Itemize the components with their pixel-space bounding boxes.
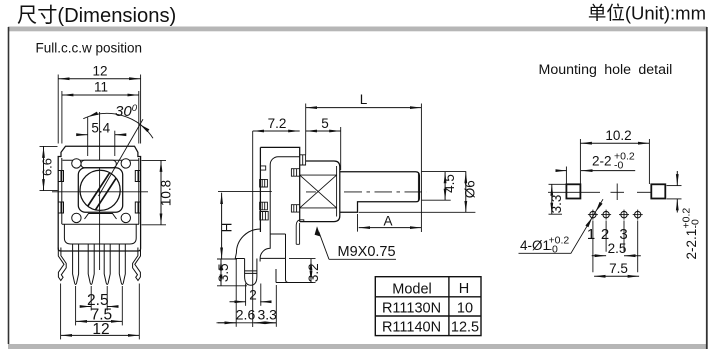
svg-text:7.5: 7.5 <box>609 261 628 276</box>
hole 3 <box>619 210 629 220</box>
pin 1 front <box>73 244 79 284</box>
center tick <box>616 184 618 201</box>
shaft end inner line <box>417 173 419 201</box>
frame left border line <box>8 27 10 344</box>
plate top bump <box>260 166 265 170</box>
front view vertical center line <box>99 112 101 270</box>
dim 7.2 <box>253 116 300 131</box>
top cover bar <box>81 160 116 168</box>
rotor housing square <box>78 168 122 212</box>
corner hole top-left <box>72 159 81 168</box>
rotor circle <box>80 170 120 210</box>
svg-text:12.5: 12.5 <box>451 320 479 336</box>
dim 12 top <box>58 63 140 143</box>
svg-text:Ø6: Ø6 <box>462 180 477 198</box>
dim 7.5 bottom <box>76 286 123 325</box>
table outer border <box>375 277 481 336</box>
svg-text:10.2: 10.2 <box>605 128 631 143</box>
svg-text:-0: -0 <box>690 219 702 228</box>
shaft outline <box>340 172 420 213</box>
dim 2-2.1 right <box>667 171 702 260</box>
label M9X0.75 with leader <box>315 226 396 260</box>
svg-text:12: 12 <box>92 321 109 338</box>
dim 10.8 <box>142 160 174 224</box>
dim 3.5 <box>216 259 247 286</box>
dim 7.5 holes <box>594 261 639 277</box>
table column divider <box>448 277 450 336</box>
dim diameter 6 <box>359 172 478 213</box>
housing bottom foot tab <box>296 220 304 245</box>
right side tab lower <box>135 202 140 213</box>
rear foot step <box>270 234 285 258</box>
dim H <box>217 191 272 259</box>
svg-text:10: 10 <box>457 301 473 317</box>
shaft center dashed line <box>306 191 427 193</box>
slot direction indicator line <box>99 119 144 196</box>
dim 10.2 <box>580 128 649 184</box>
svg-text:H: H <box>459 281 469 297</box>
svg-text:4-Ø1: 4-Ø1 <box>520 238 550 253</box>
svg-text:4.5: 4.5 <box>442 174 457 193</box>
svg-text:2.6: 2.6 <box>236 307 256 323</box>
hole 4 <box>633 210 643 220</box>
dim 2-2 slot width <box>557 151 636 185</box>
thread X diagonal 1 <box>300 175 337 208</box>
plate tab upper <box>260 179 268 187</box>
svg-text:H: H <box>219 223 234 233</box>
dim 11 <box>62 80 139 144</box>
front view horizontal center line <box>52 191 148 193</box>
svg-text:Model: Model <box>392 282 432 298</box>
bottom cover tab trapezoid <box>85 214 117 220</box>
svg-text:1: 1 <box>587 226 595 243</box>
pin kink lines <box>245 271 257 274</box>
left slot square <box>566 184 580 198</box>
threaded section box <box>300 166 337 217</box>
pin 3 front <box>104 244 110 284</box>
housing body <box>300 161 340 222</box>
table row line 2 <box>375 315 481 317</box>
seat line right and rear foot <box>260 258 288 282</box>
shaft slot line 2 <box>96 178 117 210</box>
bracket arm inner contour <box>260 157 300 259</box>
left bent leg <box>58 248 66 281</box>
svg-text:2-2.1: 2-2.1 <box>684 229 699 260</box>
svg-text:7.2: 7.2 <box>268 116 287 131</box>
svg-text:L: L <box>360 92 368 107</box>
frame bottom gray bar <box>8 344 707 349</box>
label 4-dia1 with leader <box>519 199 604 255</box>
svg-text:尺寸(Dimensions): 尺寸(Dimensions) <box>17 4 176 27</box>
cover bottom line <box>62 223 139 225</box>
svg-text:300: 300 <box>115 103 138 120</box>
plate tab lower <box>260 202 268 210</box>
cover top line <box>63 159 139 161</box>
svg-text:-0: -0 <box>614 160 623 172</box>
plate lower step tab <box>260 212 268 220</box>
front body outline <box>58 146 140 251</box>
right bent leg <box>133 248 141 281</box>
svg-text:3.5: 3.5 <box>216 263 231 282</box>
seat line left <box>235 258 244 260</box>
left side tab lower <box>58 202 63 213</box>
rear foot pad <box>276 269 313 283</box>
frame right border line <box>706 27 708 349</box>
svg-text:Full.c.c.w position: Full.c.c.w position <box>36 41 143 56</box>
cover inner line left <box>61 158 63 224</box>
svg-text:3.3: 3.3 <box>549 195 564 214</box>
seat line middle segment <box>611 191 625 193</box>
hole droplines <box>593 221 638 273</box>
svg-text:Mounting hole detail: Mounting hole detail <box>539 62 673 78</box>
pcb pin side view <box>245 259 257 286</box>
dim 3.2 <box>289 258 321 282</box>
dim 30 degrees arc <box>83 103 153 138</box>
dim 5.4 <box>80 117 123 156</box>
frame top gray bar <box>8 27 707 32</box>
dim 6.6 <box>39 146 57 190</box>
dim 3.3 left <box>549 184 567 214</box>
svg-text:11: 11 <box>94 80 108 95</box>
housing tab lower <box>291 205 299 212</box>
hole 1 <box>588 210 598 220</box>
svg-text:A: A <box>383 214 392 229</box>
svg-text:12: 12 <box>92 63 107 78</box>
svg-text:6.6: 6.6 <box>39 158 54 176</box>
left side tab upper <box>58 171 63 182</box>
svg-text:3.3: 3.3 <box>257 307 277 323</box>
svg-text:2-2: 2-2 <box>592 154 612 169</box>
cover inner line right <box>138 158 140 224</box>
svg-text:2.5: 2.5 <box>608 241 627 256</box>
seat line left segment <box>548 191 600 193</box>
shaft slot line 1 <box>88 173 110 206</box>
svg-text:5: 5 <box>321 116 329 131</box>
housing tab upper <box>291 169 299 177</box>
thread X diagonal 2 <box>300 175 337 208</box>
svg-text:R11130N: R11130N <box>382 301 441 317</box>
dim 2 pin <box>230 284 270 306</box>
dim A <box>358 214 422 232</box>
dim L <box>306 92 422 232</box>
svg-text:3.2: 3.2 <box>306 263 321 282</box>
hole 2 <box>601 210 611 220</box>
svg-text:M9X0.75: M9X0.75 <box>338 244 396 260</box>
housing top step tab <box>300 155 306 165</box>
corner hole bottom-right <box>121 213 130 222</box>
svg-text:2: 2 <box>249 288 257 303</box>
dim 2.5 holes <box>592 241 641 256</box>
dim 5 <box>306 116 341 170</box>
svg-text:单位(Unit):mm: 单位(Unit):mm <box>588 3 706 24</box>
bracket top edge and housing left face <box>260 147 299 232</box>
corner hole bottom-left <box>72 213 81 222</box>
table row line 1 <box>375 296 481 298</box>
pin center extension line <box>252 131 254 327</box>
svg-text:10.8: 10.8 <box>159 180 174 206</box>
base inner U <box>64 224 136 244</box>
pin 4 front <box>119 244 125 284</box>
svg-text:R11140N: R11140N <box>382 320 441 336</box>
seat line right segment <box>637 191 652 193</box>
dim 2.6 and 3.3 <box>217 260 278 327</box>
dim 12 bottom <box>61 284 140 340</box>
svg-text:5.4: 5.4 <box>91 121 110 136</box>
pin 2 front <box>88 244 94 284</box>
right slot square <box>651 184 665 198</box>
bracket elbow curve <box>235 229 260 259</box>
corner hole top-right <box>121 159 130 168</box>
dim 2.5 bottom <box>83 286 116 311</box>
right side tab upper <box>135 171 140 182</box>
dim 4.5 <box>422 172 467 201</box>
